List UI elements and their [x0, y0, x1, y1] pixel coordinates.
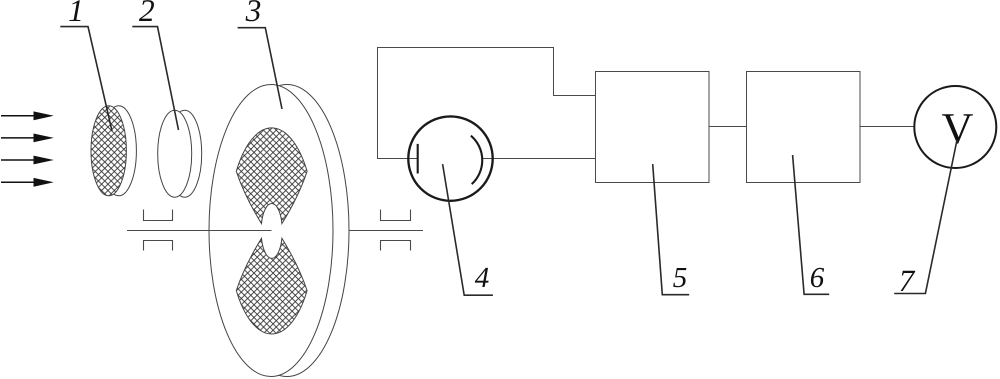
chopper blade bottom (hatched sector) [236, 238, 307, 334]
wire: detector anode to block 5 [482, 158, 596, 160]
incident beam arrow 3 [1, 156, 54, 165]
photodetector 4 cathode plate [417, 144, 419, 174]
leader line 1 [60, 27, 112, 131]
lens disk 2 [158, 110, 202, 197]
label 1 [69, 0, 80, 21]
label 6 [811, 268, 824, 287]
chopper wheel 3 rim (back ellipse) [225, 85, 349, 377]
wire: detector supply loop (left up over top, step down into block 5) [378, 48, 596, 159]
filter disk 1 (hatched) [91, 106, 136, 196]
right bearing lower bracket [381, 241, 411, 251]
incident beam arrow 2 [1, 134, 54, 143]
label 7 [901, 271, 916, 291]
leader line 4 [443, 164, 493, 295]
right bearing upper bracket [381, 210, 411, 221]
incident beam arrow 1 [1, 111, 54, 120]
leader line 7 [894, 140, 957, 294]
label 3 [246, 0, 261, 21]
left bearing lower bracket [144, 241, 173, 251]
leader line 3 [238, 28, 282, 109]
leader line 2 [132, 27, 178, 130]
photodetector 4 anode arc [471, 136, 482, 184]
voltmeter 7 letter V [942, 114, 973, 143]
label 4 [475, 268, 489, 287]
incident beam arrow 4 [1, 178, 54, 187]
leader line 5 [653, 164, 690, 295]
label 2 [139, 0, 154, 21]
block 6 (converter) [747, 72, 861, 183]
shaft axis left segment [127, 230, 272, 232]
chopper blade top (hatched sector) [236, 128, 307, 224]
photodetector 4 envelope [408, 116, 492, 200]
shaft axis right segment [349, 230, 423, 232]
voltmeter 7 circle [914, 86, 996, 168]
block 5 (amplifier) [596, 72, 710, 183]
leader line 6 [793, 155, 830, 294]
chopper wheel 3 face (front ellipse) [209, 85, 333, 377]
wire: block 6 to voltmeter [860, 126, 914, 128]
left bearing upper bracket [144, 210, 173, 221]
wire: block 5 to block 6 [709, 126, 747, 128]
label 5 [673, 268, 686, 287]
